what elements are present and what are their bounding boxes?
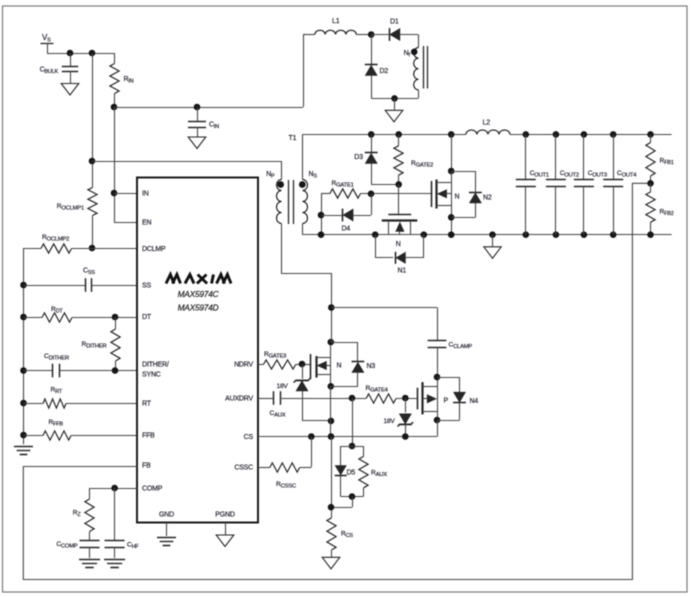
svg-text:N4: N4 xyxy=(470,398,479,405)
svg-text:GND: GND xyxy=(159,512,174,519)
svg-text:N1: N1 xyxy=(398,268,407,275)
svg-text:D4: D4 xyxy=(342,226,351,233)
svg-text:N3: N3 xyxy=(367,363,376,370)
svg-text:RT: RT xyxy=(142,401,152,408)
svg-text:18V: 18V xyxy=(384,418,396,425)
svg-text:CS: CS xyxy=(244,434,254,441)
svg-text:SS: SS xyxy=(142,283,151,290)
svg-text:N: N xyxy=(337,363,342,370)
svg-text:D2: D2 xyxy=(380,68,389,75)
svg-text:PGND: PGND xyxy=(215,512,235,519)
svg-text:SYNC: SYNC xyxy=(142,372,161,379)
svg-text:MAX5974C: MAX5974C xyxy=(178,289,220,299)
svg-text:DITHER/: DITHER/ xyxy=(142,362,169,369)
svg-text:L2: L2 xyxy=(483,120,491,127)
svg-text:EN: EN xyxy=(142,220,151,227)
svg-text:D5: D5 xyxy=(347,470,356,477)
svg-text:DT: DT xyxy=(142,314,152,321)
svg-text:FFB: FFB xyxy=(142,433,155,440)
svg-text:N: N xyxy=(455,194,460,201)
svg-text:AUXDRV: AUXDRV xyxy=(225,396,253,403)
svg-text:N: N xyxy=(396,241,401,248)
svg-text:NDRV: NDRV xyxy=(234,362,253,369)
svg-text:T1: T1 xyxy=(289,135,297,142)
svg-text:D1: D1 xyxy=(390,19,399,26)
svg-text:L1: L1 xyxy=(332,18,340,25)
svg-text:DCLMP: DCLMP xyxy=(142,246,166,253)
svg-text:D3: D3 xyxy=(354,154,363,161)
svg-text:MAX5974D: MAX5974D xyxy=(178,302,219,312)
svg-text:CSSC: CSSC xyxy=(234,465,253,472)
svg-text:18V: 18V xyxy=(277,383,289,390)
svg-text:N2: N2 xyxy=(483,195,492,202)
svg-text:FB: FB xyxy=(142,463,151,470)
svg-text:IN: IN xyxy=(142,191,149,198)
svg-text:P: P xyxy=(444,398,449,405)
svg-text:COMP: COMP xyxy=(142,486,163,493)
